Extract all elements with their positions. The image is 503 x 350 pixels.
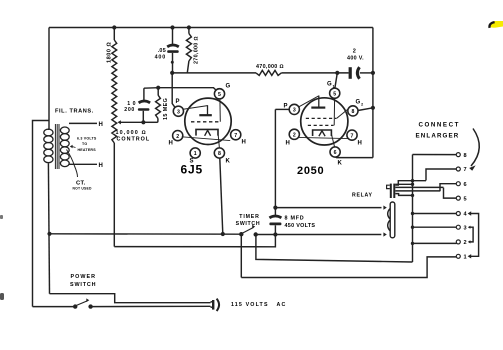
svg-text:10,000 Ω: 10,000 Ω <box>116 130 147 136</box>
label 270,000 ohm <box>194 36 200 64</box>
wire heater tap arrow <box>70 145 76 148</box>
node contact junction 3 <box>411 194 414 197</box>
terminal 8 <box>456 153 466 159</box>
svg-text:7: 7 <box>234 133 237 139</box>
svg-text:6J5: 6J5 <box>181 163 203 177</box>
wire top supply rail <box>49 27 373 29</box>
svg-text:HEATERS: HEATERS <box>78 148 97 152</box>
svg-text:6: 6 <box>464 182 467 188</box>
tube 2050 envelope <box>301 98 348 145</box>
tube 6J5 heater chord <box>182 137 230 141</box>
tube 2050 grid1 internals <box>306 109 349 119</box>
node contact junction 5 <box>411 226 414 229</box>
svg-text:2050: 2050 <box>297 165 324 177</box>
node relay-top junction <box>273 206 277 210</box>
wire 2050 plate to drop <box>275 108 289 110</box>
node plate junction <box>170 71 174 75</box>
label 15 MEG <box>163 98 169 120</box>
terminal 4 <box>456 212 467 218</box>
svg-text:TIMER: TIMER <box>239 214 259 220</box>
label P 2050 <box>284 104 289 110</box>
svg-text:115 VOLTS AC: 115 VOLTS AC <box>231 302 286 308</box>
transformer secondary winding <box>60 127 69 167</box>
svg-text:2: 2 <box>176 134 179 140</box>
wire plate node to 6J5 pin3 <box>172 73 175 108</box>
svg-text:NOT USED: NOT USED <box>73 187 92 191</box>
arrow connect-enlarger <box>469 129 479 171</box>
node 15MEG top junction <box>156 86 160 90</box>
wire line A left <box>50 233 242 235</box>
label S 6J5 <box>190 159 195 165</box>
label CONNECT ENLARGER <box>416 122 460 140</box>
jumper bracket 4-1 <box>468 211 479 258</box>
pin 2 (H) of 6J5 <box>173 131 183 141</box>
wire primary bottom lead <box>48 163 49 293</box>
svg-text:H: H <box>358 141 363 147</box>
wire terminal 1 lead <box>241 257 456 278</box>
wire timer-left drop <box>240 234 242 277</box>
wire terminal 6 lead <box>440 184 457 192</box>
switch timer lever <box>243 225 256 233</box>
node contact junction 4 <box>411 212 414 215</box>
node top rail junction C <box>187 25 191 29</box>
pin 3 (P) of 6J5 <box>173 106 183 116</box>
tube 6J5 envelope <box>185 98 231 144</box>
svg-text:5: 5 <box>464 196 467 202</box>
tube 2050 grid2 internals <box>308 99 335 126</box>
node wiper-cap junction <box>141 120 145 124</box>
pin 1 (S) of 6J5 <box>190 148 200 158</box>
pin 8 (G2) of 2050 <box>348 106 358 116</box>
svg-text:3: 3 <box>293 108 296 114</box>
wire secondary top lead H <box>69 122 97 124</box>
resistor 470,000 ohm <box>256 70 281 75</box>
label H left 6J5 <box>169 141 174 147</box>
pin 5 (G) of 6J5 <box>214 89 224 99</box>
wire common vertical <box>412 155 414 263</box>
tube 6J5 plate internals <box>183 105 212 115</box>
wire power switch to plug <box>91 305 211 307</box>
label H top <box>99 122 104 128</box>
label TIMER SWITCH <box>236 214 261 227</box>
node contact junction 1 <box>411 179 414 182</box>
wire line B <box>114 235 275 247</box>
switch timer right contact <box>254 232 258 236</box>
switch power lever <box>77 298 90 305</box>
svg-text:5: 5 <box>218 92 221 98</box>
relay contact stack bars <box>390 184 396 198</box>
pin 6 (K) of 2050 <box>330 147 340 157</box>
label RELAY <box>352 193 373 199</box>
label 115 VOLTS AC <box>231 302 286 308</box>
resistor 270,000 ohm <box>186 28 191 73</box>
svg-text:7: 7 <box>464 167 467 173</box>
capacitor 1.0 200V <box>138 88 150 122</box>
tube 2050 plate internals <box>298 96 325 108</box>
wire 2050 G2 to B+ <box>358 108 373 111</box>
svg-text:SWITCH: SWITCH <box>70 282 96 288</box>
resistor 15 MEG <box>156 88 161 123</box>
label G1 2050 <box>327 82 336 89</box>
svg-text:SWITCH: SWITCH <box>236 221 261 227</box>
label .05 400 <box>155 48 166 60</box>
terminal 2 <box>456 240 466 246</box>
svg-text:8: 8 <box>218 151 221 157</box>
svg-text:TO: TO <box>82 142 87 146</box>
label H right 6J5 <box>242 140 247 146</box>
wire left vertical from rail <box>48 28 50 130</box>
svg-text:H: H <box>169 141 174 147</box>
label 10,000 ohm CONTROL <box>116 130 151 143</box>
node top rail junction A <box>112 25 116 29</box>
wire 2050 cathode line <box>336 156 373 159</box>
jumper bracket 3-2 <box>468 226 473 244</box>
wire jog to outer-left vertical <box>33 121 50 307</box>
wire terminal 4 lead <box>413 213 457 215</box>
wire right-side B+ drop <box>372 28 374 158</box>
svg-text:H: H <box>99 163 104 169</box>
wire terminal 2 lead <box>413 242 457 244</box>
svg-text:2: 2 <box>353 49 356 55</box>
wire secondary bottom lead H <box>69 163 97 165</box>
svg-text:6.3 VOLTS: 6.3 VOLTS <box>77 137 97 141</box>
label .2 400V <box>347 49 364 62</box>
label H right 2050 <box>358 141 363 147</box>
node contact junction 2 <box>411 183 414 186</box>
label POWER SWITCH <box>70 274 96 288</box>
terminal 1 <box>456 254 466 260</box>
svg-text:3: 3 <box>464 225 467 231</box>
pin 3 (P) of 2050 <box>289 104 299 114</box>
svg-text:K: K <box>338 161 343 167</box>
pin 8 (K) of 6J5 <box>214 148 224 158</box>
potentiometer wiper arrow <box>118 120 144 124</box>
wire wiper bus <box>143 121 157 123</box>
label G2 2050 <box>356 100 365 107</box>
node 6J5 cathode junction <box>221 232 225 236</box>
label CT NOT USED <box>73 181 92 191</box>
plug 115V AC <box>211 299 220 311</box>
label K 6J5 <box>226 159 231 165</box>
svg-text:2: 2 <box>293 133 296 139</box>
label H left 2050 <box>286 141 291 147</box>
tube 2050 cathode internals <box>313 130 335 147</box>
svg-text:G: G <box>226 84 231 90</box>
node top rail junction B <box>170 25 174 29</box>
scan speck left edge lower <box>0 293 4 300</box>
node cap-bottom junction <box>273 232 277 236</box>
node terminal2 junction <box>411 242 414 245</box>
tube 6J5 grid internals <box>191 99 220 122</box>
wire transformer-to-plug upper <box>50 294 211 303</box>
svg-text:P: P <box>176 99 181 105</box>
node cap-resistor blob <box>171 61 174 64</box>
label 6J5 <box>181 163 203 177</box>
highlight mark <box>489 21 503 28</box>
svg-text:ENLARGER: ENLARGER <box>416 133 460 140</box>
pin 2 (H) of 2050 <box>289 129 299 139</box>
wire 6J5 cathode drop <box>220 158 223 234</box>
pin 5 (G1) of 2050 <box>330 88 340 98</box>
node line-A left junction <box>47 232 51 236</box>
wire 470k line left segment <box>172 72 256 74</box>
svg-text:6: 6 <box>334 150 337 156</box>
svg-text:8: 8 <box>351 109 354 115</box>
pin 7 (H) of 6J5 <box>231 130 241 140</box>
transformer primary winding <box>44 129 53 163</box>
svg-text:H: H <box>286 141 291 147</box>
svg-text:G: G <box>327 82 332 88</box>
wire 2050 plate drop <box>274 109 276 216</box>
svg-text:3: 3 <box>177 109 180 115</box>
label H bottom <box>99 163 104 169</box>
terminal 6 <box>456 182 466 188</box>
svg-text:RELAY: RELAY <box>352 193 373 199</box>
wire 470k line right segment <box>281 72 348 74</box>
switch power left contact <box>73 304 77 308</box>
svg-text:7: 7 <box>351 133 354 139</box>
svg-text:1800 Ω: 1800 Ω <box>107 42 113 63</box>
svg-text:470,000 Ω: 470,000 Ω <box>256 64 284 70</box>
wire G1 drop to 2050 pin5 <box>335 73 337 88</box>
label K 2050 <box>338 161 343 167</box>
tube 6J5 cathode internals <box>196 129 219 148</box>
label 470,000 ohm <box>256 64 284 70</box>
terminal 5 <box>456 196 466 202</box>
svg-text:400 V.: 400 V. <box>347 55 364 61</box>
svg-text:P: P <box>284 104 289 110</box>
svg-text:.05: .05 <box>158 48 166 54</box>
wire grid line <box>144 88 217 91</box>
wire timer-right drop <box>256 235 413 263</box>
svg-text:2: 2 <box>464 240 467 246</box>
scan speck left edge upper <box>0 215 3 219</box>
svg-text:450 VOLTS: 450 VOLTS <box>285 223 316 229</box>
wire outer-left bottom <box>33 306 75 308</box>
svg-text:1: 1 <box>464 255 467 261</box>
capacitor 8 MFD 450V <box>269 216 281 235</box>
node G2 junction <box>371 106 375 110</box>
svg-text:15 MEG: 15 MEG <box>163 98 169 120</box>
tube 2050 heater chord <box>298 137 348 138</box>
label FIL. TRANS. <box>55 109 94 115</box>
svg-text:8 MFD: 8 MFD <box>285 216 305 222</box>
svg-text:270,000 Ω: 270,000 Ω <box>194 36 200 64</box>
label 1800 ohm <box>107 42 113 63</box>
wire terminal 3 lead <box>413 226 457 228</box>
wire terminal 7 lead <box>426 169 457 181</box>
svg-text:8: 8 <box>464 153 467 159</box>
label G 6J5 <box>226 84 231 90</box>
transformer core <box>55 124 59 169</box>
capacitor .05 400V <box>167 28 179 73</box>
relay contact leads <box>387 181 444 196</box>
terminal 3 <box>456 225 466 231</box>
wire relay bottom arrow <box>383 232 386 236</box>
svg-text:H: H <box>99 122 104 128</box>
wire terminal 8 lead <box>413 154 457 156</box>
svg-text:400: 400 <box>155 55 166 61</box>
pin 7 (H) of 2050 <box>347 130 357 140</box>
label 6.3 VOLTS TO HEATERS <box>77 137 97 153</box>
capacitor .2 400V <box>349 67 373 79</box>
wire primary top lead <box>47 129 50 130</box>
node B+ cap junction <box>371 71 375 75</box>
wire line A right <box>256 234 382 236</box>
relay coil <box>388 202 395 238</box>
svg-text:H: H <box>242 140 247 146</box>
svg-text:CONTROL: CONTROL <box>117 137 151 143</box>
svg-text:FIL. TRANS.: FIL. TRANS. <box>55 109 94 115</box>
svg-text:2: 2 <box>361 102 364 107</box>
svg-text:5: 5 <box>333 91 336 97</box>
wire terminal 5 lead <box>444 188 457 199</box>
label 8 MFD 450 VOLTS <box>285 216 316 229</box>
switch timer left contact <box>239 232 243 236</box>
svg-text:CONNECT: CONNECT <box>419 122 460 129</box>
label P 6J5 <box>176 99 181 105</box>
svg-text:1: 1 <box>194 151 197 157</box>
wire center tap squiggle <box>67 150 78 178</box>
label 2050 <box>297 165 324 177</box>
svg-text:200: 200 <box>124 107 135 113</box>
wire relay top lead <box>275 205 386 209</box>
terminal 7 <box>456 167 466 173</box>
node G1 junction <box>335 71 339 75</box>
switch power right contact <box>88 304 92 308</box>
svg-text:POWER: POWER <box>71 274 97 280</box>
svg-text:K: K <box>226 159 231 165</box>
svg-text:4: 4 <box>464 212 468 218</box>
svg-text:G: G <box>356 100 361 106</box>
label 1.0 200 <box>124 101 136 113</box>
resistor 1800 ohm / 10,000 ohm control element <box>112 28 117 247</box>
svg-text:1: 1 <box>333 84 336 89</box>
